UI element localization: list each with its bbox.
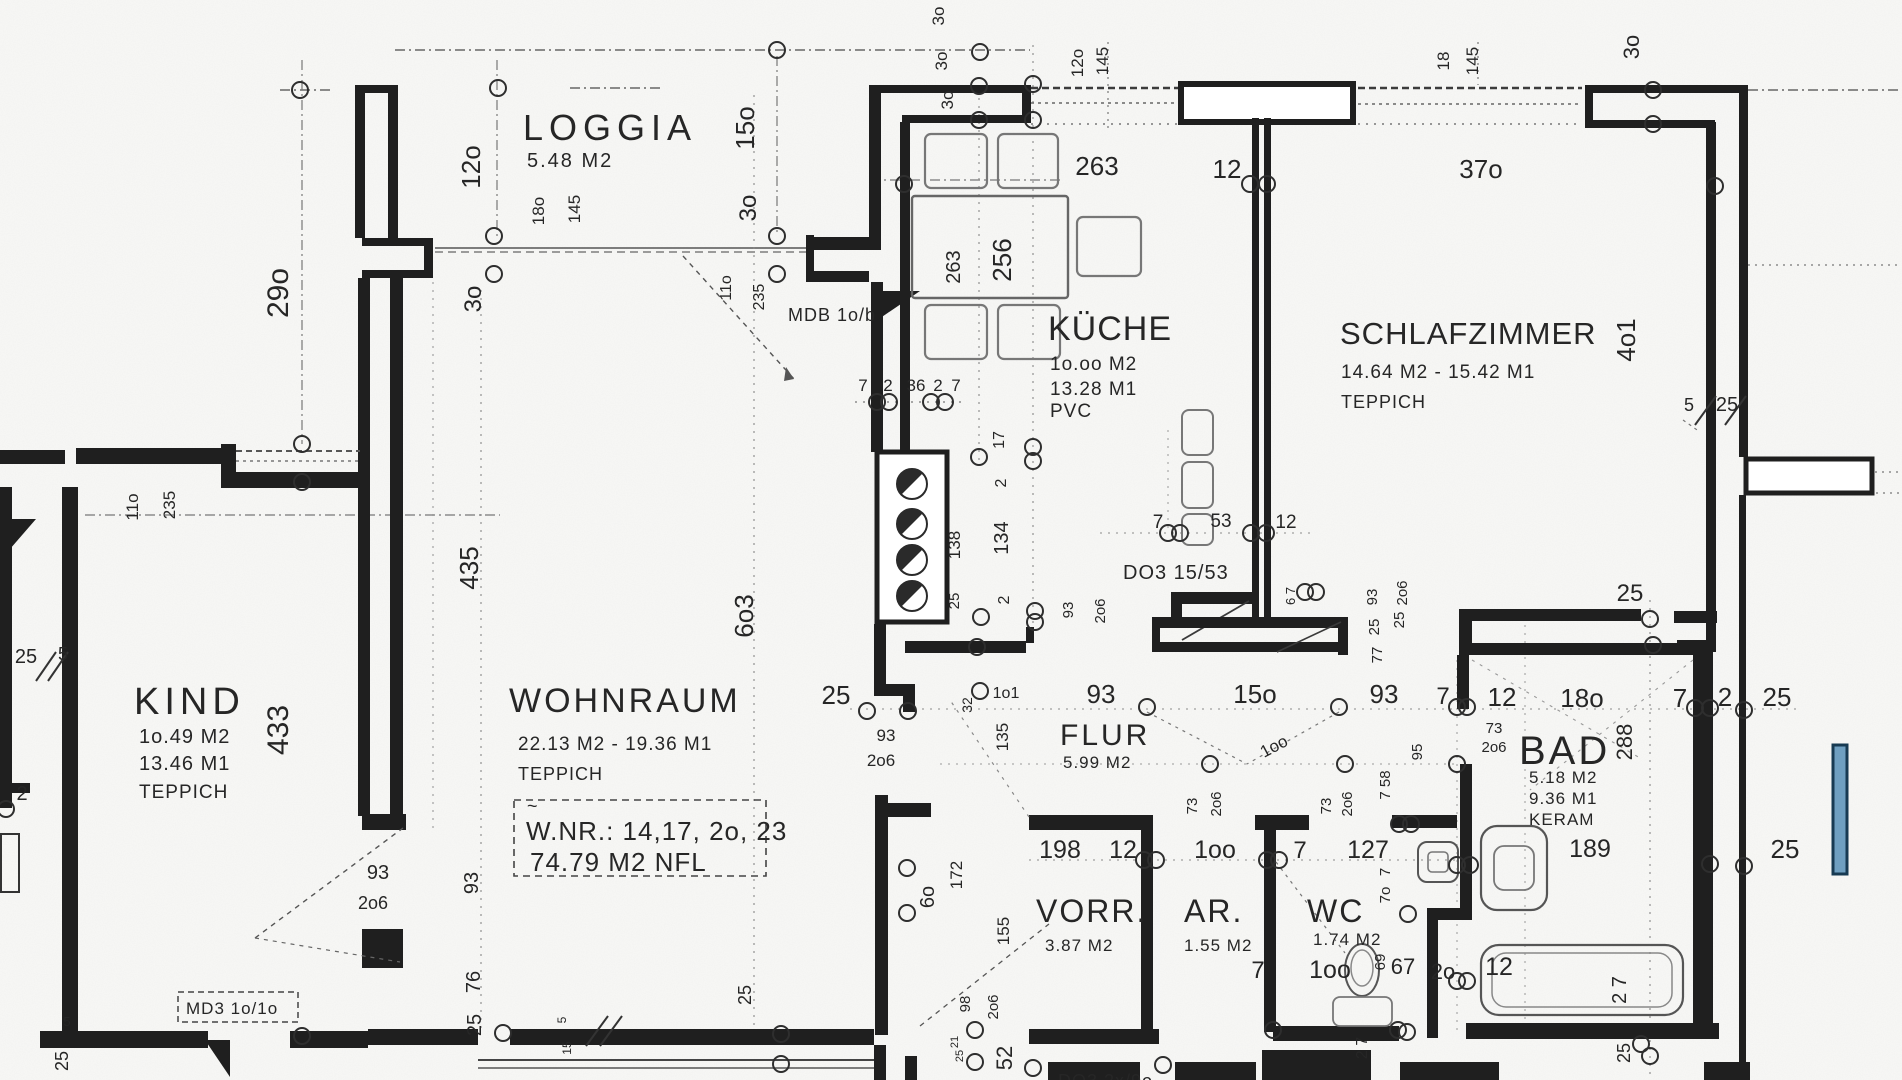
svg-text:3o: 3o bbox=[460, 286, 487, 313]
svg-text:9.36 M1: 9.36 M1 bbox=[1529, 789, 1597, 808]
svg-text:2: 2 bbox=[993, 478, 1010, 487]
svg-text:93: 93 bbox=[367, 862, 389, 884]
wall east outer lower bbox=[1739, 495, 1746, 1080]
bottom dark piece C bbox=[1262, 1050, 1371, 1080]
svg-text:VORR.: VORR. bbox=[1036, 893, 1147, 929]
svg-text:2: 2 bbox=[883, 376, 892, 395]
svg-text:2: 2 bbox=[933, 376, 942, 395]
svg-text:MD3 1o/1o: MD3 1o/1o bbox=[186, 999, 278, 1018]
neighbour wall left edge bbox=[0, 487, 12, 808]
svg-text:AR.: AR. bbox=[1184, 893, 1243, 929]
svg-text:11o: 11o bbox=[123, 493, 142, 520]
loggia door jamb top stub bbox=[362, 238, 433, 246]
bad bathtub bbox=[1481, 945, 1683, 1015]
wall kind bottom right piece bbox=[290, 1031, 368, 1048]
svg-text:145: 145 bbox=[1093, 47, 1112, 75]
svg-text:127: 127 bbox=[1347, 836, 1389, 864]
wc toilet bbox=[1345, 944, 1379, 996]
svg-text:25: 25 bbox=[946, 593, 963, 610]
svg-text:SCHLAFZIMMER: SCHLAFZIMMER bbox=[1340, 316, 1597, 351]
svg-text:15o: 15o bbox=[730, 106, 760, 149]
bad washbasin bbox=[1481, 826, 1547, 910]
svg-text:12o: 12o bbox=[1068, 49, 1087, 77]
bottom secondary line bbox=[478, 1059, 874, 1061]
wall flur north right cap bbox=[1338, 617, 1348, 655]
door DO3 sill bar bbox=[1172, 592, 1253, 604]
svg-text:36: 36 bbox=[907, 376, 926, 395]
svg-text:25: 25 bbox=[52, 1051, 72, 1071]
svg-text:73: 73 bbox=[1486, 720, 1503, 737]
svg-text:15o: 15o bbox=[1233, 679, 1276, 709]
svg-text:93: 93 bbox=[1087, 679, 1116, 709]
bottom right stub bbox=[1704, 1062, 1750, 1080]
door DO3 jamb bbox=[1171, 592, 1182, 620]
svg-text:25: 25 bbox=[1614, 1043, 1634, 1063]
svg-text:1o.49 M2: 1o.49 M2 bbox=[139, 726, 230, 748]
svg-text:LOGGIA: LOGGIA bbox=[523, 107, 697, 148]
svg-text:11o: 11o bbox=[718, 275, 735, 301]
svg-text:3o: 3o bbox=[1619, 35, 1644, 59]
svg-text:25: 25 bbox=[15, 646, 37, 668]
svg-text:5.48 M2: 5.48 M2 bbox=[527, 150, 613, 172]
svg-text:7 58: 7 58 bbox=[1377, 770, 1394, 799]
svg-text:PVC: PVC bbox=[1050, 401, 1092, 422]
kitchen table bbox=[912, 196, 1068, 298]
wall pillar rectangle bbox=[1181, 84, 1353, 122]
svg-text:77: 77 bbox=[1369, 647, 1386, 664]
wall kitchen top connector bbox=[1022, 85, 1031, 123]
svg-text:6o3: 6o3 bbox=[729, 594, 759, 637]
wall bad west lower bbox=[1460, 764, 1472, 920]
svg-text:25: 25 bbox=[1771, 834, 1800, 864]
svg-text:12: 12 bbox=[1488, 682, 1517, 712]
svg-text:12: 12 bbox=[1109, 836, 1137, 864]
svg-text:18o: 18o bbox=[529, 197, 548, 225]
wall vorraum top bbox=[1029, 815, 1147, 830]
wall kitchen bottom bbox=[875, 612, 945, 624]
svg-text:~: ~ bbox=[527, 796, 538, 816]
svg-text:5: 5 bbox=[63, 1014, 70, 1029]
kitchen chair 1 bbox=[925, 134, 987, 188]
svg-text:433: 433 bbox=[262, 705, 295, 755]
svg-text:TEPPICH: TEPPICH bbox=[1341, 392, 1426, 412]
window kind top band bbox=[236, 450, 360, 452]
kitchen chair 4 bbox=[998, 305, 1060, 359]
kitchen chair 3 bbox=[925, 305, 987, 359]
wall flur north left cap bbox=[1152, 617, 1160, 652]
wall bottom wohnraum right bbox=[510, 1029, 874, 1045]
svg-text:22.13 M2 - 19.36 M1: 22.13 M2 - 19.36 M1 bbox=[518, 734, 712, 755]
loggia door jamb bottom stub bbox=[362, 270, 433, 278]
wall bottom wohnraum left bbox=[368, 1029, 478, 1045]
svg-text:2o6: 2o6 bbox=[1394, 580, 1411, 605]
svg-text:2 7: 2 7 bbox=[1609, 976, 1631, 1004]
bottom dark piece A bbox=[1048, 1062, 1140, 1080]
svg-text:32: 32 bbox=[959, 697, 975, 713]
wall ar-wc top bbox=[1255, 815, 1309, 830]
svg-text:2o6: 2o6 bbox=[358, 893, 388, 913]
svg-text:DO3 15/53: DO3 15/53 bbox=[1123, 562, 1229, 584]
svg-text:1oo: 1oo bbox=[1309, 956, 1351, 984]
svg-text:95: 95 bbox=[1409, 744, 1426, 761]
svg-text:145: 145 bbox=[1463, 47, 1482, 75]
svg-text:73: 73 bbox=[1184, 798, 1201, 815]
window kitchen dotted rows bbox=[1031, 87, 1179, 90]
svg-text:37o: 37o bbox=[1459, 154, 1502, 184]
wall wohnraum east upper bbox=[874, 624, 886, 696]
svg-text:5.18 M2: 5.18 M2 bbox=[1529, 768, 1597, 787]
wall schlafzimmer top connector bbox=[1585, 85, 1593, 128]
neighbour door wedge bbox=[10, 519, 36, 549]
svg-text:2: 2 bbox=[16, 783, 27, 805]
loggia door jamb vertical bbox=[424, 238, 433, 278]
svg-text:138: 138 bbox=[945, 531, 964, 559]
svg-text:1o1: 1o1 bbox=[993, 685, 1020, 702]
wall kitchen top inner bbox=[902, 115, 1031, 123]
svg-text:7: 7 bbox=[1251, 957, 1264, 984]
wall bad north bottom stroke bbox=[1466, 643, 1713, 655]
svg-text:2o6: 2o6 bbox=[867, 751, 895, 770]
blue marker bar bbox=[1833, 745, 1847, 874]
svg-text:235: 235 bbox=[160, 491, 179, 519]
svg-text:7: 7 bbox=[1377, 868, 1394, 876]
wall wohnraum east lower bbox=[875, 795, 888, 1035]
wc mat bbox=[1333, 997, 1392, 1026]
neighbour cabinet bbox=[1, 834, 19, 892]
svg-text:5: 5 bbox=[555, 1016, 569, 1023]
wall kind-wohnraum cap bbox=[362, 814, 406, 830]
kitchen chair right bbox=[1077, 217, 1141, 276]
kitchen stove unit with burners bbox=[877, 452, 947, 622]
door wedge kind bottom bbox=[205, 1040, 230, 1077]
wall schlafzimmer east inner bbox=[1706, 122, 1716, 649]
wall kitchen-schlafzimmer west stroke bbox=[1252, 118, 1259, 619]
svg-text:93: 93 bbox=[1060, 602, 1077, 619]
svg-text:WOHNRAUM: WOHNRAUM bbox=[509, 682, 741, 720]
svg-text:135: 135 bbox=[993, 723, 1012, 751]
svg-text:3o: 3o bbox=[932, 52, 951, 71]
svg-text:7: 7 bbox=[1153, 512, 1164, 533]
svg-text:98: 98 bbox=[957, 996, 974, 1013]
wall kitchen-schlafzimmer east stroke bbox=[1264, 118, 1271, 619]
loggia right jamb top bbox=[806, 237, 881, 250]
wall schlafzimmer top outer right bbox=[1585, 85, 1748, 93]
svg-text:18: 18 bbox=[1434, 52, 1453, 71]
svg-text:5: 5 bbox=[1684, 395, 1694, 415]
svg-text:2o6: 2o6 bbox=[1208, 791, 1225, 816]
svg-text:1o.oo M2: 1o.oo M2 bbox=[1050, 354, 1137, 375]
svg-text:263: 263 bbox=[1075, 151, 1118, 181]
kitchen chair 2 bbox=[998, 134, 1058, 188]
svg-text:2: 2 bbox=[1718, 682, 1732, 712]
svg-text:25: 25 bbox=[1366, 619, 1383, 636]
svg-text:52: 52 bbox=[992, 1046, 1017, 1070]
wall schlafzimmer top inner bbox=[1585, 120, 1715, 128]
wall wc top piece bbox=[1392, 815, 1457, 828]
wall bad east band bbox=[1693, 649, 1713, 1038]
svg-text:25: 25 bbox=[464, 1014, 486, 1036]
svg-text:2: 2 bbox=[996, 595, 1013, 604]
wall loggia left inner stroke bbox=[388, 93, 398, 243]
svg-text:172: 172 bbox=[947, 861, 966, 889]
svg-text:13.28 M1: 13.28 M1 bbox=[1050, 379, 1137, 400]
door wedge MDB bbox=[873, 291, 920, 323]
svg-text:25: 25 bbox=[1763, 682, 1792, 712]
window schlafzimmer dotted rows bbox=[1358, 87, 1582, 90]
svg-text:25: 25 bbox=[1391, 612, 1408, 629]
svg-text:KÜCHE: KÜCHE bbox=[1048, 310, 1172, 348]
kitchen counter cell 2 bbox=[1182, 462, 1213, 508]
wall hatch ticks bbox=[36, 652, 56, 681]
wall wohnraum east step bbox=[903, 684, 915, 712]
svg-text:67: 67 bbox=[1391, 954, 1415, 979]
svg-text:69: 69 bbox=[1372, 954, 1389, 971]
svg-text:145: 145 bbox=[565, 195, 584, 223]
svg-text:155: 155 bbox=[994, 917, 1013, 945]
svg-text:189: 189 bbox=[1569, 835, 1611, 863]
wall kind-wohnraum right stroke bbox=[390, 278, 403, 816]
svg-text:2o6: 2o6 bbox=[1481, 739, 1506, 756]
svg-text:6o: 6o bbox=[917, 886, 939, 908]
svg-text:1.74 M2: 1.74 M2 bbox=[1313, 930, 1381, 949]
wall schlafzimmer east outer bbox=[1739, 93, 1748, 457]
wall bottom under bad bbox=[1466, 1023, 1719, 1039]
svg-text:7: 7 bbox=[1293, 837, 1306, 864]
wall bump-out rectangle bbox=[1746, 459, 1872, 493]
dimension circles bbox=[292, 82, 308, 98]
wall kitchen west outer top bbox=[869, 85, 881, 237]
svg-text:14.64 M2 - 15.42 M1: 14.64 M2 - 15.42 M1 bbox=[1341, 362, 1535, 383]
svg-text:256: 256 bbox=[987, 238, 1017, 281]
door DO3 leaf bbox=[1182, 601, 1249, 640]
svg-text:25: 25 bbox=[735, 985, 755, 1005]
svg-text:7o: 7o bbox=[1377, 887, 1394, 904]
svg-text:21: 21 bbox=[949, 1036, 961, 1048]
svg-text:17: 17 bbox=[991, 431, 1008, 449]
svg-text:15: 15 bbox=[560, 1041, 574, 1055]
svg-text:2o6: 2o6 bbox=[985, 994, 1002, 1019]
wall bad north top stroke bbox=[1459, 609, 1641, 621]
wall kitchen west inner bbox=[900, 122, 910, 452]
svg-text:3o: 3o bbox=[929, 7, 948, 26]
wall flur north bottom stroke bbox=[1160, 642, 1347, 652]
svg-text:TEPPICH: TEPPICH bbox=[518, 764, 603, 784]
svg-text:1.55 M2: 1.55 M2 bbox=[1184, 936, 1252, 955]
svg-text:2o: 2o bbox=[1431, 959, 1455, 984]
wall wohnraum east cap bbox=[874, 684, 915, 696]
svg-text:25: 25 bbox=[822, 680, 851, 710]
wall flur northwest bbox=[905, 641, 1026, 653]
svg-text:25: 25 bbox=[954, 1050, 966, 1062]
wall bottom under wc bbox=[1273, 1026, 1399, 1041]
wall loggia left outer stroke bbox=[355, 85, 365, 238]
wall schlafzimmer inner turn bbox=[1677, 640, 1716, 652]
svg-text:12: 12 bbox=[1213, 154, 1242, 184]
wall kind bottom bbox=[40, 1031, 208, 1048]
svg-text:235: 235 bbox=[751, 284, 768, 311]
svg-text:MDB 1o/b: MDB 1o/b bbox=[788, 305, 876, 325]
svg-text:W.NR.: 14,17, 2o, 23: W.NR.: 14,17, 2o, 23 bbox=[526, 816, 787, 846]
wall kitchen west outer mid bbox=[871, 282, 883, 452]
svg-text:6 7: 6 7 bbox=[1283, 587, 1298, 605]
svg-text:FLUR: FLUR bbox=[1060, 719, 1150, 752]
wall bad west upper bbox=[1457, 655, 1469, 709]
wall wc east bbox=[1427, 908, 1438, 1038]
door schlafzimmer leaf bbox=[1277, 622, 1341, 652]
svg-text:1oo: 1oo bbox=[1194, 836, 1236, 864]
wall kind top outer bbox=[76, 448, 233, 464]
svg-text:3o: 3o bbox=[938, 91, 957, 110]
svg-text:263: 263 bbox=[943, 250, 965, 283]
svg-text:12: 12 bbox=[1485, 953, 1513, 981]
svg-text:25: 25 bbox=[1716, 394, 1738, 416]
svg-text:18o: 18o bbox=[1560, 683, 1603, 713]
svg-text:25: 25 bbox=[1617, 580, 1644, 607]
svg-text:7: 7 bbox=[858, 376, 867, 395]
wall flur north top stroke bbox=[1152, 617, 1343, 628]
svg-text:BAD: BAD bbox=[1519, 729, 1610, 773]
wc washbasin bbox=[1418, 842, 1458, 882]
wall ar-wc bbox=[1264, 815, 1276, 1032]
wall loggia left top cap bbox=[355, 85, 398, 93]
wall bottom under vorraum bbox=[1029, 1029, 1159, 1044]
svg-text:93: 93 bbox=[877, 726, 896, 745]
wall vorraum-ar bbox=[1141, 815, 1153, 1032]
svg-text:7: 7 bbox=[951, 376, 960, 395]
svg-text:93: 93 bbox=[461, 872, 483, 894]
svg-text:2o6: 2o6 bbox=[1339, 791, 1356, 816]
svg-text:93: 93 bbox=[1370, 679, 1399, 709]
wall kitchen top outer bbox=[869, 85, 1031, 93]
bottom stub B bbox=[905, 1056, 917, 1080]
wall bad north top right piece bbox=[1674, 611, 1717, 623]
svg-text:29o: 29o bbox=[262, 268, 295, 318]
svg-text:7: 7 bbox=[1436, 683, 1449, 710]
neighbour stub bbox=[0, 783, 30, 793]
svg-text:73: 73 bbox=[1318, 798, 1335, 815]
bottom dark piece D bbox=[1400, 1062, 1499, 1080]
svg-text:74.79 M2 NFL: 74.79 M2 NFL bbox=[530, 847, 707, 877]
svg-text:5.99 M2: 5.99 M2 bbox=[1063, 753, 1131, 772]
svg-text:12o: 12o bbox=[456, 145, 486, 188]
loggia right jamb vertical bbox=[806, 235, 814, 282]
svg-text:DO3 2x/9o: DO3 2x/9o bbox=[1058, 1071, 1153, 1080]
svg-text:2o6: 2o6 bbox=[1092, 598, 1109, 623]
svg-text:3.87 M2: 3.87 M2 bbox=[1045, 936, 1113, 955]
wall bad north left cap bbox=[1459, 609, 1472, 655]
wall kind top jog bbox=[221, 444, 236, 488]
kitchen counter cell 3 bbox=[1182, 514, 1213, 545]
loggia right jamb bottom stub bbox=[806, 271, 869, 282]
svg-text:12: 12 bbox=[1275, 512, 1296, 533]
wall kind left bbox=[62, 487, 78, 1035]
kitchen counter cell 1 bbox=[1182, 410, 1213, 455]
svg-text:3o: 3o bbox=[735, 195, 762, 222]
svg-text:KIND: KIND bbox=[134, 681, 245, 723]
svg-text:WC: WC bbox=[1307, 893, 1364, 929]
svg-text:TEPPICH: TEPPICH bbox=[139, 782, 228, 803]
bottom stub A bbox=[874, 1045, 886, 1080]
svg-text:134: 134 bbox=[991, 521, 1013, 554]
wall bottom tick slashes bbox=[586, 1016, 608, 1046]
svg-text:53: 53 bbox=[1210, 511, 1231, 532]
door swing diagonals bbox=[683, 256, 794, 379]
svg-text:4o1: 4o1 bbox=[1611, 318, 1641, 361]
dimension grid lines bbox=[395, 49, 1030, 51]
svg-text:7: 7 bbox=[1673, 683, 1687, 713]
svg-text:93: 93 bbox=[1364, 589, 1381, 606]
wall flur northwest stub bbox=[1026, 627, 1034, 643]
svg-text:13.46 M1: 13.46 M1 bbox=[139, 753, 230, 775]
wall kind top inner bbox=[227, 472, 364, 488]
svg-text:KERAM: KERAM bbox=[1529, 810, 1594, 829]
bottom dark piece B bbox=[1175, 1062, 1256, 1080]
svg-text:198: 198 bbox=[1039, 836, 1081, 864]
wall wc east cap bbox=[1427, 908, 1460, 920]
svg-text:76: 76 bbox=[463, 971, 485, 993]
svg-text:5: 5 bbox=[58, 644, 68, 664]
svg-text:2 7: 2 7 bbox=[1354, 1037, 1371, 1059]
svg-text:288: 288 bbox=[1612, 724, 1637, 761]
wall kind-wohnraum left stroke bbox=[358, 278, 370, 816]
wall kind-wohnraum stub segment bbox=[362, 929, 403, 968]
wall wohnraum east lower stub bbox=[888, 803, 931, 817]
wall left edge piece bbox=[0, 450, 65, 464]
svg-text:435: 435 bbox=[454, 546, 484, 589]
